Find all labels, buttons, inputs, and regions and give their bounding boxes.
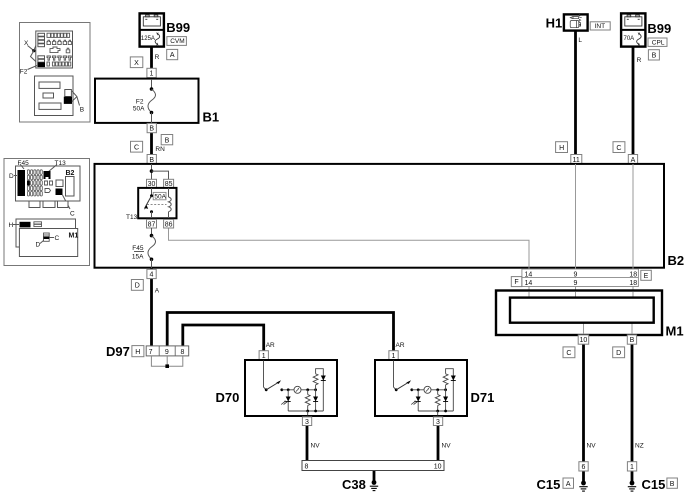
svg-text:M1: M1 [69,233,79,240]
svg-text:F2: F2 [136,99,144,106]
wire D70 pin 3 to C38 pin 8 (NV) [306,424,309,461]
pin 30 box [147,179,157,188]
pin 1 box (D70) [259,351,268,360]
svg-text:T13: T13 [126,214,138,221]
svg-text:D70: D70 [216,390,240,405]
svg-text:C38: C38 [342,477,366,492]
svg-text:D97: D97 [106,344,130,359]
connector letter H box [556,142,568,153]
svg-text:1: 1 [150,71,154,78]
switch D70 (with internals) [245,360,337,416]
connector C black [56,189,63,196]
M1 panel rear [16,219,76,247]
switch D71 (with internals) [375,360,467,416]
connector letter B box (mid) [161,135,173,145]
svg-text:NV: NV [311,443,321,450]
svg-text:D: D [36,242,41,249]
svg-text:7: 7 [149,349,153,356]
sensor C/D striped [44,233,50,241]
svg-text:8: 8 [181,349,185,356]
svg-text:CPL: CPL [652,40,665,47]
pin 3 box (D70) [302,417,311,426]
svg-text:H: H [9,222,14,229]
svg-text:E: E [644,273,649,280]
pin 86 box [164,219,174,228]
label INT box [590,22,610,30]
M1 inner block [510,298,654,323]
box B1 [95,79,199,123]
svg-text:X: X [134,60,139,67]
svg-text:NV: NV [442,443,452,450]
pin table between B2 and M1 [522,269,639,287]
fuse F2 highlighted black [38,63,45,67]
pin 85 box [164,179,174,188]
fuse F45 15A inside B2 [132,228,156,268]
svg-text:R: R [637,57,642,64]
svg-text:C: C [70,211,75,218]
svg-text:B2: B2 [668,253,685,268]
connector letter B box [648,50,659,60]
svg-text:B: B [80,107,84,114]
svg-text:B: B [670,481,675,488]
svg-text:18: 18 [629,271,637,278]
left fuse column [38,33,45,62]
wire D97 pin 9 to D71 pin 1 (AR) [167,313,393,352]
svg-text:F45: F45 [132,245,144,252]
svg-text:B: B [149,157,154,164]
wire M1 pin B to ground C15 B (NZ) [631,344,634,483]
wire B2 pin 4 to D97 pin 7 [150,268,153,346]
tabs below panel [29,201,40,208]
connector letter C box (M1) [563,347,575,358]
pin 1 box (right ground) [627,462,636,471]
svg-text:B99: B99 [647,21,671,36]
inset: fusebox location drawing (top left) [20,23,91,123]
svg-text:C: C [616,145,621,152]
connector letter A box [167,49,178,59]
svg-text:A: A [566,481,571,488]
relay T13 [138,188,176,218]
svg-text:B99: B99 [166,20,190,35]
connector D97 box with pins 7 9 8 [146,346,189,356]
fuse panel outline [36,31,73,68]
small shapes [45,181,48,185]
connector letter H box (D97) [132,346,144,357]
svg-text:9: 9 [165,349,169,356]
svg-text:F: F [514,279,518,286]
ground C15 A [579,481,587,492]
pin 1 box (D71) [389,351,398,360]
wire H1 to B2 pin 11 (L) [574,30,577,164]
box B2 [95,164,665,268]
wire D97 pin 8 to D70 pin 1 (AR) [183,325,264,351]
lamp H1 [564,14,588,31]
svg-text:14: 14 [525,271,533,278]
svg-text:B: B [149,126,154,133]
pin B box (B1 bottom) [147,123,156,132]
right mini fuse rows [47,33,71,66]
fuse F2 50A inside B1 [133,79,156,123]
svg-text:A: A [170,52,175,59]
box M1 [496,291,662,336]
pin B box (B2 top) [147,155,156,164]
svg-text:NZ: NZ [635,443,644,450]
svg-text:11: 11 [573,157,580,164]
svg-text:87: 87 [148,221,156,228]
svg-text:AR: AR [396,342,405,349]
pin 1 box (B1 top) [147,68,156,77]
wire B2 pin A to pin 18 [632,164,634,291]
svg-text:4: 4 [150,272,154,279]
svg-text:15A: 15A [132,254,144,261]
wire B2 pin 11 to pin 9 [575,164,577,291]
svg-text:3: 3 [305,419,309,426]
wire B1 pin B to B2 pin B [150,123,153,164]
pin 6 box [579,462,588,471]
wire battery B99 left to B1 pin 1 [150,46,153,79]
B2 panel [16,166,81,201]
svg-text:R: R [155,54,160,61]
ground (C38) [370,480,378,491]
svg-text:M1: M1 [666,324,684,339]
svg-text:C15: C15 [642,477,666,492]
node junction above relay [150,164,169,180]
svg-text:70A: 70A [624,36,635,42]
fuse F45 black [27,180,30,185]
relay coil [168,188,170,197]
inset: B2/M1 location drawing (left middle) [4,159,90,266]
svg-text:9: 9 [574,280,578,287]
connector B highlighted black [64,97,71,103]
relay T13 black [44,171,51,179]
svg-text:50A: 50A [154,193,166,200]
interior lamp icon [570,14,582,28]
pin 4 box (B2 bottom) [147,269,156,278]
svg-text:10: 10 [580,337,588,344]
wire C38 to ground [373,470,376,482]
connector C38 box [302,461,444,471]
svg-text:B: B [165,137,170,144]
svg-text:C15: C15 [537,477,561,492]
svg-text:AR: AR [266,342,275,349]
connector H black [20,222,31,228]
svg-text:INT: INT [595,23,606,30]
wire M1 pin 10 to ground C15 A (NV) [582,344,585,483]
svg-text:F2: F2 [20,69,28,76]
svg-text:10: 10 [434,464,442,471]
connector letter C box (right) [613,142,625,153]
battery B99 (right) [621,13,645,46]
svg-text:C: C [55,235,60,242]
svg-text:D: D [9,173,14,180]
svg-text:B: B [630,337,635,344]
fuse grid [27,170,42,196]
svg-text:50A: 50A [133,106,145,113]
svg-text:86: 86 [165,221,173,228]
svg-text:C: C [134,144,139,151]
svg-text:C: C [566,350,571,357]
svg-text:8: 8 [305,464,309,471]
connector letter B box (C15) [667,478,678,488]
svg-text:A: A [155,288,160,295]
svg-text:B1: B1 [203,110,220,125]
wires into M1 from table [528,292,530,298]
svg-text:D: D [135,283,140,290]
relay switch contact [151,188,153,196]
label CVM box [167,37,187,46]
battery icon [143,17,160,26]
pin 87 box [147,219,157,228]
svg-text:CVM: CVM [170,38,184,45]
M1 panel front [19,229,77,257]
wire battery B99 right to B2 pin A (R) [632,46,635,164]
connector letter D box [131,280,143,291]
connector D black [18,170,26,196]
svg-text:H: H [559,145,564,152]
connector letter X box [130,57,143,68]
svg-text:1: 1 [392,353,396,360]
svg-text:6: 6 [582,464,586,471]
connector letter D box (M1) [613,347,625,358]
svg-text:18: 18 [629,280,637,287]
svg-text:H1: H1 [546,15,563,30]
svg-text:NV: NV [587,443,597,450]
wire relay 86 to pin 14 [169,226,530,291]
ground C15 B [628,481,636,492]
svg-text:125A: 125A [141,36,155,42]
wire D71 pin 3 to C38 pin 10 (NV) [437,424,440,461]
svg-text:L: L [578,37,582,44]
svg-text:14: 14 [525,280,533,287]
ECU box [35,76,74,116]
svg-text:RN: RN [155,146,165,153]
relay actuation dashed line [147,204,167,206]
pin 10 box (M1 bottom) [578,335,589,344]
pin A box (B2 top) [628,155,637,164]
svg-text:H: H [135,349,140,356]
svg-text:1: 1 [630,464,634,471]
svg-text:D71: D71 [471,390,495,405]
battery icon [625,17,642,26]
pin 11 box [571,155,582,164]
pin 3 box (D71) [433,417,442,426]
D97 internal link bracket [151,356,182,368]
svg-text:B: B [652,52,657,59]
svg-text:1: 1 [262,353,266,360]
svg-text:A: A [631,157,636,164]
connector letter F box [511,277,522,287]
svg-text:B2: B2 [66,170,75,177]
battery B99 (left) [140,13,164,46]
connector letter E box [641,270,652,280]
pin B box (M1 bottom) [627,335,636,344]
svg-text:D: D [616,350,621,357]
svg-text:3: 3 [436,419,440,426]
svg-text:9: 9 [574,271,578,278]
label CPL box [648,38,667,46]
connector letter A box (C15) [563,478,574,488]
connector letter C box (mid) [131,141,143,152]
